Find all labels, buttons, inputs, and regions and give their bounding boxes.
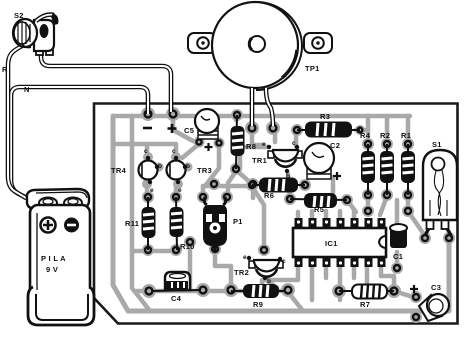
- svg-text:P I L A: P I L A: [41, 254, 66, 263]
- svg-text:R1: R1: [401, 131, 411, 140]
- resistor R8: [231, 115, 257, 169]
- svg-text:R8: R8: [246, 142, 256, 151]
- svg-text:IC1: IC1: [325, 239, 338, 248]
- trace center segments: [240, 130, 425, 236]
- resistor R6: [252, 178, 305, 201]
- capacitor C5: [184, 109, 219, 151]
- trace IC fanout: [262, 211, 394, 300]
- svg-text:TR2: TR2: [234, 268, 249, 277]
- speaker TP1: [188, 2, 332, 90]
- board labels + -: [143, 124, 177, 133]
- svg-text:R7: R7: [360, 300, 370, 309]
- svg-text:R9: R9: [253, 300, 263, 309]
- svg-text:R4: R4: [360, 131, 371, 140]
- trace top bus: [115, 114, 410, 119]
- svg-text:R: R: [2, 65, 8, 74]
- resistor R10: [170, 197, 195, 251]
- sensor S1: [423, 140, 457, 236]
- wire N (battery negative to board): [11, 85, 148, 199]
- svg-text:9 V: 9 V: [46, 265, 58, 274]
- transistor TR1: [252, 140, 302, 180]
- capacitor C2: [304, 141, 341, 180]
- pads (through-hole): [141, 107, 455, 323]
- svg-text:R5: R5: [314, 205, 324, 214]
- wire speaker right lead: [266, 88, 273, 126]
- svg-text:R2: R2: [380, 131, 390, 140]
- svg-text:b: b: [286, 173, 290, 180]
- svg-text:e: e: [262, 141, 266, 148]
- resistor R11: [125, 197, 156, 250]
- resistor R4: [360, 131, 375, 195]
- svg-text:c: c: [144, 148, 148, 155]
- svg-text:c: c: [172, 148, 176, 155]
- svg-text:TR1: TR1: [252, 156, 267, 165]
- wire R (switch to battery): [2, 46, 26, 198]
- svg-text:b: b: [186, 163, 190, 170]
- svg-text:R10: R10: [180, 242, 195, 251]
- svg-text:P1: P1: [233, 217, 243, 226]
- capacitor C4: [152, 272, 201, 303]
- svg-text:TR4: TR4: [111, 166, 127, 175]
- wire speaker left lead: [250, 88, 255, 126]
- trace mid-left segments: [113, 144, 303, 311]
- trace inner left bus: [132, 116, 150, 311]
- capacitor C1: [390, 224, 407, 261]
- capacitor C3: [410, 283, 449, 321]
- trace branches top: [173, 116, 408, 145]
- resistor R5: [290, 193, 347, 214]
- transistor TR2: [234, 254, 286, 285]
- svg-text:S1: S1: [432, 140, 442, 149]
- svg-text:R11: R11: [125, 219, 139, 228]
- svg-text:e: e: [150, 187, 154, 194]
- svg-text:e: e: [178, 187, 182, 194]
- svg-text:b: b: [158, 163, 162, 170]
- svg-text:c: c: [282, 258, 286, 265]
- svg-text:e: e: [243, 254, 247, 261]
- trace bottom segments: [137, 233, 449, 317]
- resistor R1: [401, 131, 415, 195]
- svg-text:R3: R3: [320, 112, 330, 121]
- wire switch to board positive pad: [41, 53, 171, 112]
- svg-text:TR3: TR3: [197, 166, 212, 175]
- svg-text:b: b: [267, 278, 271, 285]
- svg-text:c: c: [292, 140, 296, 147]
- svg-text:C1: C1: [393, 252, 403, 261]
- svg-text:C2: C2: [330, 141, 340, 150]
- switch S2: [13, 11, 58, 55]
- svg-text:N: N: [24, 85, 30, 94]
- svg-text:C4: C4: [171, 294, 182, 303]
- svg-text:S2: S2: [14, 11, 24, 20]
- PCB board outline: [94, 104, 458, 324]
- svg-text:TP1: TP1: [305, 64, 320, 73]
- trace left and bottom bus: [113, 116, 449, 311]
- IC IC1: [293, 218, 386, 267]
- resistor R7: [339, 285, 394, 310]
- battery PILA 9V: [28, 205, 94, 325]
- svg-text:C5: C5: [184, 126, 194, 135]
- svg-text:C3: C3: [431, 283, 441, 292]
- transistor TR3: [167, 148, 213, 194]
- potentiometer P1: [203, 197, 243, 251]
- resistor R9: [231, 284, 285, 309]
- transistor TR4: [111, 148, 162, 194]
- svg-text:R6: R6: [264, 191, 274, 200]
- battery clip: [27, 189, 89, 209]
- resistor R2: [380, 131, 394, 195]
- resistor R3: [297, 112, 360, 138]
